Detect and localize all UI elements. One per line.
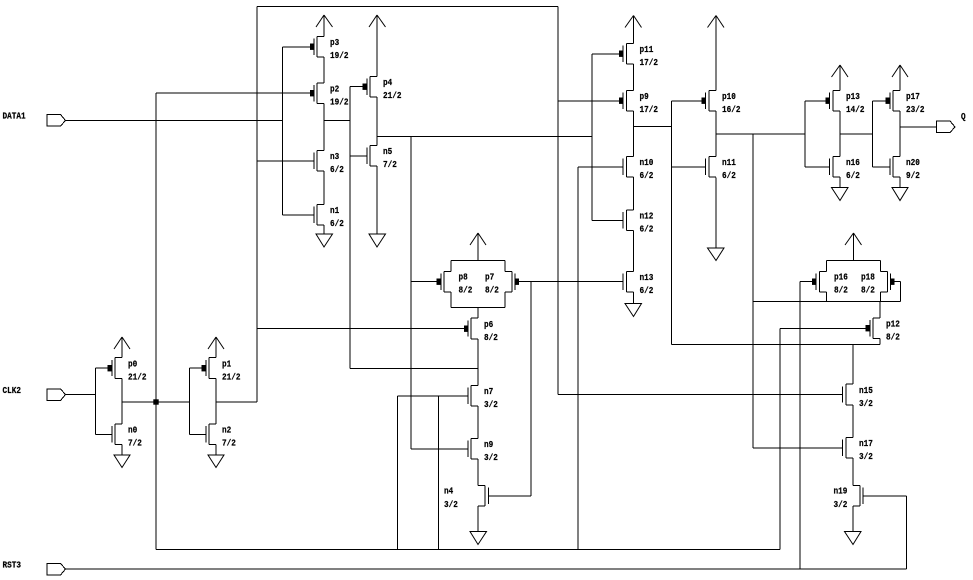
wire n5 gate stub: [350, 155, 367, 157]
wire p13/n16 gate rail: [804, 101, 806, 167]
wire p4 drain to n5 drain: [376, 97, 378, 146]
wire net clkb vertical: [155, 93, 157, 550]
svg-text:6/2: 6/2: [640, 285, 654, 296]
svg-text:7/2: 7/2: [383, 159, 397, 170]
wire n15 source to n17 drain: [852, 405, 854, 438]
wire n1 gate stub: [283, 214, 315, 216]
svg-text:n20: n20: [906, 157, 920, 168]
transistor p6 (PMOS 8/2): [464, 318, 478, 339]
svg-text:n15: n15: [859, 385, 873, 396]
transistor p17 (PMOS 23/2): [886, 91, 901, 112]
port input DATA1: [47, 115, 66, 127]
VDD supply arrow (p11): [625, 16, 642, 44]
wire n7 gate riser A: [397, 396, 399, 550]
wire p16 source drop: [826, 261, 828, 272]
wire p18 drain drop: [880, 292, 882, 302]
svg-text:7/2: 7/2: [222, 438, 236, 449]
transistor n16 (NMOS 6/2): [830, 157, 841, 178]
VDD supply arrow (p4): [369, 15, 386, 77]
port input RST3: [47, 564, 66, 576]
svg-text:p12: p12: [886, 319, 900, 330]
wire inverter1 output tap: [122, 401, 154, 403]
port output Q: [937, 121, 956, 133]
wire p12 gate wire: [780, 328, 866, 330]
wire p16 gate riser to RST: [799, 282, 801, 570]
wire net clk2b left riser: [256, 7, 258, 403]
transistor n11 (NMOS 6/2): [706, 157, 717, 178]
wire clkb to inverter2 input: [159, 401, 190, 403]
svg-text:16/2: 16/2: [722, 104, 741, 115]
svg-text:n13: n13: [640, 272, 654, 283]
wire master node jog: [324, 120, 350, 122]
svg-text:p18: p18: [861, 272, 875, 283]
transistor n4 (NMOS 3/2): [478, 486, 489, 507]
svg-text:n11: n11: [722, 157, 736, 168]
transistor p11 (PMOS 17/2): [619, 44, 634, 65]
transistor n19 (NMOS 3/2): [853, 486, 863, 507]
wire p13 drain to n16 drain: [839, 111, 841, 157]
transistor n12 (NMOS 6/2): [623, 210, 634, 231]
svg-text:6/2: 6/2: [640, 224, 654, 235]
VDD supply arrow (p17): [892, 65, 908, 91]
wire p4 gate stub: [350, 86, 363, 88]
wire RST3 input wire: [66, 568, 907, 570]
svg-text:n19: n19: [834, 486, 848, 497]
wire n15 drain riser: [852, 345, 854, 385]
wire n4 gate riser: [530, 282, 532, 497]
wire slave output wire: [716, 133, 805, 135]
svg-text:n5: n5: [383, 146, 393, 157]
transistor n7 (NMOS 3/2): [468, 386, 478, 407]
wire p13 gate stub: [805, 100, 826, 102]
svg-text:19/2: 19/2: [330, 97, 349, 108]
wire p12 source riser: [879, 302, 881, 319]
transistor n1 (NMOS 6/2): [314, 205, 324, 226]
wire p9 gate wire: [558, 100, 619, 102]
wire p2 drain to n3 drain: [323, 104, 325, 151]
wire p18 gate drop: [900, 282, 902, 302]
svg-text:8/2: 8/2: [834, 285, 848, 296]
svg-text:8/2: 8/2: [886, 332, 900, 343]
svg-text:3/2: 3/2: [834, 499, 848, 510]
transistor p1 (PMOS 21/2): [202, 358, 217, 379]
svg-text:21/2: 21/2: [128, 372, 147, 383]
svg-text:9/2: 9/2: [906, 170, 920, 181]
svg-text:3/2: 3/2: [484, 452, 498, 463]
ground symbol (n1): [316, 225, 333, 247]
transistor p16 (PMOS 8/2): [812, 272, 827, 293]
VDD supply arrow (p13): [832, 65, 849, 91]
svg-text:8/2: 8/2: [861, 285, 875, 296]
ground symbol (n16): [832, 177, 849, 201]
transistor p2 (PMOS 19/2): [310, 83, 324, 104]
transistor n9 (NMOS 3/2): [468, 439, 478, 460]
wire p1 drain to n2 drain: [215, 379, 217, 425]
wire p17 drain to n20 drain: [899, 111, 901, 157]
wire net clkb bottom run: [156, 549, 780, 551]
wire clk2 buffered output tap: [216, 401, 257, 403]
svg-text:p16: p16: [834, 272, 848, 283]
transistor n3 (NMOS 6/2): [314, 151, 324, 172]
wire net clk2b top run: [257, 6, 558, 8]
svg-text:p7: p7: [485, 272, 494, 283]
wire n7 source to n9 drain: [477, 406, 479, 439]
wire Q output wire: [900, 126, 937, 128]
wire p8 drain drop: [450, 292, 452, 308]
svg-text:p2: p2: [330, 84, 340, 95]
wire p0 drain to n0 drain: [121, 379, 123, 425]
wire p12 drain drop: [879, 339, 881, 345]
ground symbol (n19): [845, 506, 862, 545]
wire n17 gate wire: [753, 447, 843, 449]
VDD supply arrow (p16/p18 pair): [845, 233, 862, 261]
svg-text:n16: n16: [846, 157, 860, 168]
wire feedback drain wire: [672, 344, 881, 346]
wire p3 gate stub: [283, 46, 311, 48]
svg-text:6/2: 6/2: [846, 170, 860, 181]
svg-text:n7: n7: [484, 386, 493, 397]
wire p10 gate stub: [672, 100, 702, 102]
transistor p13 (PMOS 14/2): [826, 91, 841, 112]
wire p9 drain to n10 drain: [633, 111, 635, 157]
wire p12 gate riser: [779, 329, 781, 550]
transistor n2 (NMOS 7/2): [206, 424, 216, 445]
svg-text:p11: p11: [640, 44, 654, 55]
wire n7 gate wire: [398, 395, 469, 397]
svg-text:p0: p0: [128, 359, 138, 370]
wire n7 gate riser B: [438, 396, 440, 550]
svg-text:n2: n2: [222, 425, 232, 436]
svg-text:n1: n1: [330, 205, 340, 216]
wire n9 gate wire: [411, 448, 468, 450]
transistor p0 (PMOS 21/2): [108, 358, 123, 379]
ground symbol (n20): [892, 177, 908, 201]
wire p7 drain drop: [504, 292, 506, 308]
node clkb junction dot: [153, 399, 158, 404]
svg-text:p9: p9: [640, 91, 650, 102]
svg-text:14/2: 14/2: [846, 104, 865, 115]
transistor n15 (NMOS 3/2): [843, 384, 854, 405]
ground symbol (n13): [625, 292, 642, 317]
VDD supply arrow (p3): [316, 15, 333, 37]
svg-text:23/2: 23/2: [906, 104, 925, 115]
wire n10 gate wire: [578, 166, 623, 168]
wire n10 source to n12 drain: [633, 177, 635, 210]
svg-text:8/2: 8/2: [485, 285, 499, 296]
svg-text:7/2: 7/2: [128, 438, 142, 449]
svg-text:8/2: 8/2: [484, 332, 498, 343]
wire n20 gate stub: [873, 166, 891, 168]
svg-text:p8: p8: [459, 272, 469, 283]
port input CLK2: [47, 389, 66, 401]
wire n15 gate wire: [558, 394, 843, 396]
wire p16 gate wire: [800, 281, 812, 283]
wire p8 gate wire: [411, 281, 437, 283]
svg-text:p13: p13: [846, 91, 860, 102]
ground symbol (n2): [208, 445, 224, 468]
wire feedback to master node: [350, 368, 478, 370]
transistor p9 (PMOS 17/2): [619, 91, 634, 112]
svg-text:3/2: 3/2: [859, 398, 873, 409]
wire p2 gate wire: [156, 92, 310, 94]
svg-text:17/2: 17/2: [640, 104, 659, 115]
svg-text:8/2: 8/2: [459, 285, 473, 296]
svg-text:6/2: 6/2: [330, 164, 344, 175]
wire n19 gate wire: [863, 495, 907, 497]
ground symbol (n0): [114, 445, 130, 468]
wire p18 gate wire: [895, 281, 901, 283]
wire n11 gate stub: [672, 166, 706, 168]
wire p18 source drop: [880, 261, 882, 272]
wire p6 gate wire: [257, 328, 464, 330]
svg-text:6/2: 6/2: [640, 170, 654, 181]
svg-text:n12: n12: [640, 211, 654, 222]
wire p6 drain to n7 drain: [477, 339, 479, 386]
wire p17/n20 gate rail: [872, 101, 874, 167]
svg-text:6/2: 6/2: [722, 170, 736, 181]
wire n9 source to n4 drain: [477, 459, 479, 486]
svg-text:p1: p1: [222, 359, 232, 370]
wire p10 drain to n11 drain: [715, 111, 717, 157]
wire inverter1 input rail: [95, 368, 97, 435]
wire DATA1 input wire: [66, 120, 283, 122]
transistor n10 (NMOS 6/2): [623, 157, 634, 178]
VDD supply arrow (p1): [208, 337, 224, 358]
transistor p8 (PMOS 8/2): [437, 272, 452, 293]
svg-text:3/2: 3/2: [484, 399, 498, 410]
VDD supply arrow (p0): [114, 337, 130, 358]
VDD supply arrow (p10): [708, 16, 725, 91]
wire pair drain stem: [477, 308, 479, 319]
wire p11/n12 gate rail: [591, 54, 593, 221]
transistor p18 (PMOS 8/2): [881, 272, 895, 293]
wire slave stage tap: [634, 126, 672, 128]
wire n17 source to n19 drain: [852, 458, 854, 486]
VDD supply arrow (p8/p7 pair): [470, 233, 486, 261]
wire p3 drain to p2 source: [323, 57, 325, 83]
wire buffer stage wire: [840, 133, 873, 135]
wire n16 gate stub: [805, 166, 830, 168]
svg-text:n17: n17: [859, 438, 873, 449]
svg-text:n4: n4: [444, 486, 454, 497]
wire p11 drain to p9 source: [633, 64, 635, 91]
wire n3 gate wire: [257, 160, 314, 162]
ground symbol (n5): [369, 166, 386, 247]
wire p16 drain drop: [826, 292, 828, 302]
transistor n0 (NMOS 7/2): [112, 424, 122, 445]
wire n3 source to n1 drain: [323, 171, 325, 205]
wire n12 source to n13 drain: [633, 231, 635, 272]
svg-text:n0: n0: [128, 425, 138, 436]
wire p17 gate stub: [873, 100, 886, 102]
transistor p10 (PMOS 16/2): [702, 91, 717, 112]
svg-text:p6: p6: [484, 319, 494, 330]
transistor p12 (PMOS 8/2): [866, 318, 881, 339]
wire DATA1 gate rail: [282, 47, 284, 215]
wire p8/p7 drain rail: [451, 307, 505, 309]
ground symbol (n4): [470, 506, 487, 545]
svg-text:DATA1: DATA1: [3, 111, 26, 122]
wire p1 gate stub: [190, 367, 202, 369]
svg-text:21/2: 21/2: [383, 90, 402, 101]
wire n12 gate stub: [592, 220, 623, 222]
transistor p7 (PMOS 8/2): [505, 272, 519, 293]
svg-text:21/2: 21/2: [222, 372, 241, 383]
wire p7/n13 gate wire: [519, 281, 623, 283]
wire p16/p18 drain rail wire: [753, 301, 901, 303]
svg-text:n9: n9: [484, 439, 494, 450]
svg-text:n3: n3: [330, 151, 340, 162]
wire p11 gate stub: [592, 53, 619, 55]
wire slave node riser: [752, 134, 754, 448]
wire p7 source drop: [504, 261, 506, 272]
wire p8 source drop: [450, 261, 452, 272]
transistor n17 (NMOS 3/2): [843, 438, 854, 459]
wire n4 gate wire: [489, 495, 532, 497]
svg-text:RST3: RST3: [3, 560, 22, 571]
wire feedback gate riser: [410, 137, 412, 450]
svg-text:6/2: 6/2: [330, 218, 344, 229]
wire p0 gate stub: [96, 367, 108, 369]
wire n10 gate riser: [577, 167, 579, 550]
wire inverter2 input rail: [189, 368, 191, 435]
transistor n5 (NMOS 7/2): [367, 146, 377, 167]
svg-text:CLK2: CLK2: [3, 385, 22, 396]
svg-text:p4: p4: [383, 77, 393, 88]
wire p10/n11 gate rail: [671, 101, 673, 345]
wire CLK2 to inverter1 input: [66, 394, 96, 396]
wire p8/p7 source rail: [451, 260, 505, 262]
wire master node riser: [349, 87, 351, 369]
svg-text:Q: Q: [961, 111, 966, 122]
transistor p4 (PMOS 21/2): [363, 77, 378, 98]
ground symbol (n11): [708, 178, 725, 261]
wire p16/p18 source rail: [827, 260, 881, 262]
svg-text:p3: p3: [330, 37, 340, 48]
wire n0 gate stub: [96, 434, 113, 436]
wire n2 gate stub: [190, 434, 207, 436]
wire master latch output wire: [377, 136, 592, 138]
transistor p3 (PMOS 19/2): [310, 37, 324, 58]
svg-text:3/2: 3/2: [444, 499, 458, 510]
transistor n20 (NMOS 9/2): [890, 157, 900, 178]
svg-text:3/2: 3/2: [859, 451, 873, 462]
svg-text:17/2: 17/2: [640, 57, 659, 68]
svg-text:p17: p17: [906, 91, 920, 102]
svg-text:p10: p10: [722, 91, 736, 102]
svg-text:19/2: 19/2: [330, 50, 349, 61]
transistor n13 (NMOS 6/2): [623, 272, 634, 293]
svg-text:n10: n10: [640, 157, 654, 168]
wire net clk2b right riser: [557, 7, 559, 395]
wire n19 gate riser: [906, 496, 908, 569]
